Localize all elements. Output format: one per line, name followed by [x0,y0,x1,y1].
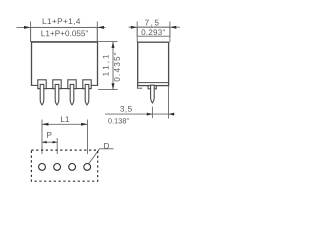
pin 4 window [83,80,91,89]
label D leader line [89,149,100,164]
front view body bottom edge left segment [31,84,38,86]
dimension 11,1 metric label (rotated) [103,55,110,76]
dimension L1+P right arrow [97,26,104,29]
hole 4 [84,164,91,171]
dimension L1+P dimension line [17,26,106,28]
dimension P left arrow [42,141,47,144]
hole 3 [69,164,76,171]
dimension 11,1 bottom extension line [98,89,118,91]
dimension 3,5 line [105,113,175,115]
dimension 7,5 right arrow [170,26,176,29]
hole 2 [54,164,61,171]
dimension 3,5 body edge extension line [168,86,170,119]
dimension P right extension line (hole 2 center) [56,138,58,154]
pin 3 shank [70,84,74,105]
dimension P label [47,132,51,138]
dimension L1+P left arrow [24,26,31,29]
dimension L1 right extension line (hole 4 center) [87,120,89,155]
dimension 3,5 left arrow [147,113,153,116]
pin 1 shank [40,84,44,105]
pin 2 shank [55,84,59,105]
inch box L1+P+0.055 [31,27,98,41]
pin 1 window [38,80,46,89]
side view pin shank [151,85,155,103]
dimension P line [42,141,57,143]
dimension L1+P left extension line [30,22,32,42]
dimension 3,5 label [120,106,132,113]
front view body [32,42,98,85]
dimension L1+P+1,4 metric label [43,18,80,25]
dimension 11,1 top extension line [98,41,118,43]
dimension 11,1 top arrow [112,42,115,48]
dimension 3,5 right arrow [169,113,175,116]
dimension 3,5 pin center extension line [151,107,153,119]
label D underline [99,148,113,150]
side view inner bottom line [138,82,168,84]
dimension L1 left extension line (hole 1 center) [41,120,43,155]
pin 2 window [53,80,61,89]
dimension L1 label [61,116,69,122]
inch label L1+P+0.055 [41,30,87,36]
dimension 7,5 left arrow [131,26,137,29]
dimension P right arrow [53,141,58,144]
dimension 7,5 left extension line [136,22,138,43]
inch label 0.293 [142,29,165,35]
side view body [138,42,169,85]
dimension L1 right arrow [81,123,87,126]
dimension 11,1 bottom arrow [112,83,115,89]
footprint outline (dashed) [31,150,97,181]
ledge line across windows [38,88,91,90]
side view left foot [137,86,142,88]
dimension 7,5 line [129,26,181,28]
dimension L1 line [42,123,88,125]
pin 4 shank [85,84,89,105]
dimension 7,5 right extension line [169,22,171,43]
side view pin shoulder [148,86,156,89]
dimension 11,1 line [112,42,114,90]
inch box 0.293 [137,27,170,36]
dimension 7,5 label [145,20,159,27]
dimension 3,5 inch label 0.138 [108,118,128,123]
pin 3 window [68,80,76,89]
front view body bottom edge right segment [91,84,98,86]
label D [104,143,109,149]
dimension L1 left arrow [42,123,48,126]
dimension 0.435 inch label (rotated) [114,53,120,82]
dimension L1+P right extension line [96,22,98,42]
hole 1 [39,164,46,171]
